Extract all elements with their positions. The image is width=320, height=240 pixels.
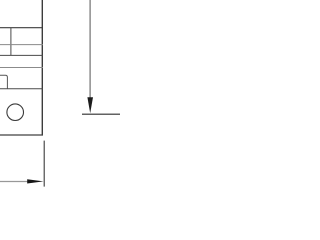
extension line vertical	[43, 141, 45, 187]
right dimension line vertical	[89, 0, 91, 98]
body outline right edge (thick vertical)	[41, 0, 43, 135]
table inner vertical divider	[10, 28, 12, 56]
body bottom horizontal line	[0, 134, 43, 136]
bottom dimension line tail	[0, 181, 30, 183]
shelf horizontal line	[0, 88, 43, 90]
down arrowhead	[87, 97, 93, 113]
light horizontal line	[0, 67, 43, 69]
right arrowhead	[27, 179, 43, 183]
table bottom horizontal line	[0, 54, 43, 56]
table middle light horizontal line	[0, 44, 43, 46]
right horizontal datum line	[82, 113, 120, 115]
hole circle	[7, 104, 24, 121]
table horizontal line top	[0, 27, 43, 29]
small rounded tab	[0, 75, 7, 88]
